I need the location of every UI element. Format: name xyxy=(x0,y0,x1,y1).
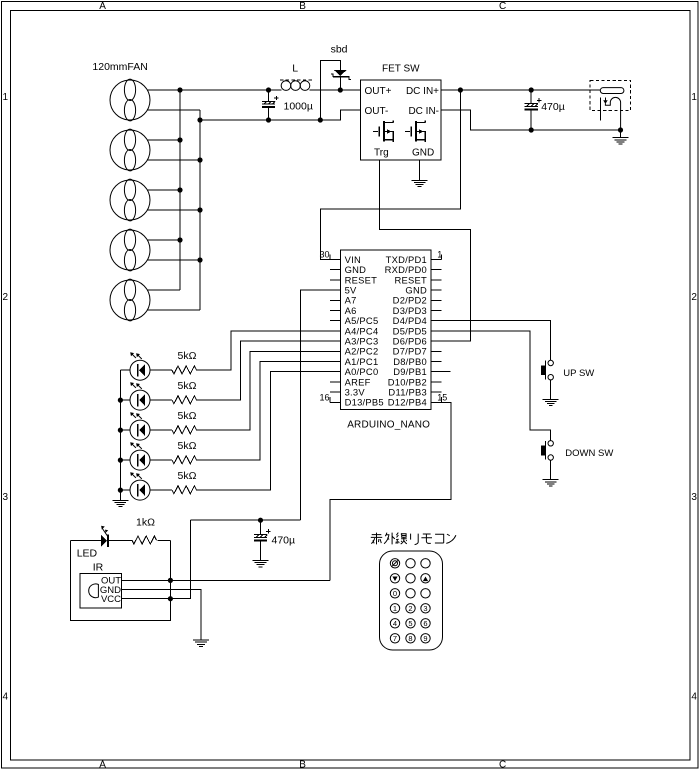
wire fan- rail xyxy=(199,110,201,310)
resistor R1 5k xyxy=(172,366,197,374)
svg-text:15: 15 xyxy=(437,392,447,402)
wire D5/PD5 to DOWN SW xyxy=(442,331,551,441)
svg-text:1000µ: 1000µ xyxy=(284,101,313,113)
svg-text:0: 0 xyxy=(393,589,397,598)
svg-text:OUT-: OUT- xyxy=(365,106,389,117)
wire LED anode lead xyxy=(150,489,172,491)
wire R to A1/PC1 xyxy=(197,362,330,461)
wire LED cathode lead xyxy=(120,369,130,371)
svg-text:LED: LED xyxy=(77,548,98,560)
wire fan- lead xyxy=(147,259,200,261)
svg-text:DC IN+: DC IN+ xyxy=(406,86,439,97)
remote power button icon xyxy=(392,560,398,566)
wire fan+ rail xyxy=(179,90,181,290)
IC U1 ARDUINO_NANO box xyxy=(341,250,431,410)
svg-text:1: 1 xyxy=(691,92,697,103)
junction DC IN+ / VIN feed xyxy=(458,87,463,92)
junction fan- rail xyxy=(197,207,202,212)
ground (C3) xyxy=(253,561,269,567)
capacitor 470u (C3) xyxy=(254,529,271,540)
svg-text:5kΩ: 5kΩ xyxy=(178,410,197,422)
wire IR OUT net xyxy=(122,579,331,581)
wire fan+ lead xyxy=(147,89,180,91)
wire fan- lead xyxy=(147,159,200,161)
wire D4/PD4 to UP SW xyxy=(442,321,551,361)
svg-text:sbd: sbd xyxy=(331,43,348,55)
svg-text:9: 9 xyxy=(423,634,427,643)
wire D9/PB1 stub xyxy=(442,371,451,373)
wire fan+ lead xyxy=(147,189,180,191)
wire fan+ lead xyxy=(147,239,180,241)
junction OUT+ / C 1000u xyxy=(266,87,271,92)
wire D12/PB4 to IR OUT xyxy=(330,402,451,580)
remote digit buttons xyxy=(393,589,428,643)
LED D6 (IR emitter) xyxy=(101,526,109,547)
wire C1000u bottom lead xyxy=(268,107,270,120)
junction LED cathode rail xyxy=(118,488,123,493)
svg-text:5kΩ: 5kΩ xyxy=(178,470,197,482)
ground (DC jack) xyxy=(613,138,629,144)
wire DC IN+ to VIN xyxy=(321,90,461,260)
pin number ticks xyxy=(330,254,442,402)
junction OUT- / C 1000u xyxy=(266,117,271,122)
junction fan- rail xyxy=(197,117,202,122)
diode sbd (schottky) xyxy=(331,70,351,80)
wire Trg to D6/PD6 xyxy=(380,160,471,341)
wire 5V rail bottom xyxy=(191,519,301,521)
wire DOWN SW to ground xyxy=(550,460,552,479)
ground (DOWN SW) xyxy=(543,480,559,486)
junction OUT- / sbd xyxy=(318,117,323,122)
svg-text:3: 3 xyxy=(3,492,9,503)
junction fan+ rail xyxy=(177,187,182,192)
junction LED cathode rail xyxy=(118,428,123,433)
junction fan+ rail xyxy=(177,237,182,242)
capacitor 470u (C2) xyxy=(525,98,542,109)
ground (IR GND) xyxy=(193,640,209,646)
wire LED anode lead xyxy=(150,459,172,461)
fan M4 xyxy=(110,229,150,271)
wire LED cathode lead xyxy=(120,489,130,491)
wire LED cathode lead xyxy=(120,399,130,401)
IR sensor dome xyxy=(89,584,99,598)
fan M2 xyxy=(110,129,150,171)
wire UP SW to ground xyxy=(550,380,552,399)
svg-text:1: 1 xyxy=(3,92,9,103)
junction jack sleeve / DC IN- xyxy=(618,127,623,132)
svg-text:5kΩ: 5kΩ xyxy=(178,380,197,392)
wire C1000u top lead xyxy=(268,90,270,101)
svg-text:2: 2 xyxy=(691,292,697,303)
wire C470u-2 bottom lead xyxy=(260,541,262,561)
junction DC IN- / C 470u xyxy=(529,127,534,132)
wire LED cathode lead xyxy=(120,459,130,461)
wire R to A4/PC4 xyxy=(197,331,330,370)
LED D1 xyxy=(130,352,150,380)
wire R to A3/PC3 xyxy=(197,341,330,400)
fan M3 xyxy=(110,179,150,221)
svg-text:2: 2 xyxy=(408,604,412,613)
svg-text:UP SW: UP SW xyxy=(563,368,594,379)
wire 5V net xyxy=(301,290,331,520)
svg-text:3: 3 xyxy=(691,492,697,503)
junction IR OUT / module box edge xyxy=(168,578,173,583)
wire fan- lead xyxy=(147,309,200,311)
svg-text:4: 4 xyxy=(3,692,9,703)
junction DC IN+ / C 470u xyxy=(529,87,534,92)
LED D2 xyxy=(130,382,150,410)
wire IR GND net xyxy=(122,590,202,641)
junction 5V rail / C 470u xyxy=(258,518,263,523)
svg-text:GND: GND xyxy=(412,148,434,159)
svg-text:D12/PB4: D12/PB4 xyxy=(388,397,427,408)
svg-text:DC IN-: DC IN- xyxy=(408,106,439,117)
remote down arrow button xyxy=(392,577,397,582)
wire sbd cathode lead xyxy=(339,77,341,90)
wire LED cathode lead xyxy=(120,429,130,431)
wire fan+ lead xyxy=(147,289,180,291)
junction OUT+ / sbd xyxy=(338,87,343,92)
switch UP SW (SW1) xyxy=(541,360,553,380)
junction LED cathode rail xyxy=(118,458,123,463)
svg-text:6: 6 xyxy=(423,619,427,628)
wire C470u top lead xyxy=(530,90,532,104)
ground (LED rail) xyxy=(112,500,128,506)
wire sbd branch xyxy=(320,60,340,120)
wire OUT- net xyxy=(200,110,361,120)
junction IR VCC / module box edge xyxy=(168,596,173,601)
junction fan+ rail xyxy=(177,137,182,142)
svg-text:B: B xyxy=(299,760,306,770)
svg-text:2: 2 xyxy=(3,292,9,303)
wire C470u bottom lead xyxy=(530,110,532,131)
svg-text:B: B xyxy=(299,1,306,12)
wire LED anode lead xyxy=(150,399,172,401)
junction LED cathode rail xyxy=(118,398,123,403)
junction fan- rail xyxy=(197,257,202,262)
svg-text:5kΩ: 5kΩ xyxy=(178,350,197,362)
junction fan- rail xyxy=(197,157,202,162)
wire jack ground lead xyxy=(620,130,622,138)
svg-text:4: 4 xyxy=(691,692,697,703)
arduino right pin stubs xyxy=(431,260,442,403)
wire OUT+ net (L to FET SW) xyxy=(310,89,361,91)
transistor Q1 (FET inside FET SW) xyxy=(373,121,393,143)
fan M5 xyxy=(110,279,150,321)
svg-text:Trg: Trg xyxy=(374,148,389,159)
resistor R2 5k xyxy=(172,396,197,404)
resistor R5 5k xyxy=(172,486,197,494)
svg-text:5kΩ: 5kΩ xyxy=(178,440,197,452)
arduino left pin stubs xyxy=(330,260,341,403)
wire DC IN- net xyxy=(441,110,621,130)
switch DOWN SW (SW2) xyxy=(541,441,553,461)
label 赤外線リモコン (infrared remote) hand-drawn glyphs xyxy=(371,533,382,545)
svg-text:7: 7 xyxy=(393,634,397,643)
svg-text:FET SW: FET SW xyxy=(382,64,420,75)
svg-text:ARDUINO_NANO: ARDUINO_NANO xyxy=(347,420,430,431)
svg-text:VCC: VCC xyxy=(101,594,121,605)
wire fan+ lead xyxy=(147,139,180,141)
svg-text:1: 1 xyxy=(393,604,397,613)
FET SW module box (U2) xyxy=(361,80,442,160)
wire R to A2/PC2 xyxy=(197,351,330,430)
remote up arrow button xyxy=(423,577,428,582)
svg-text:L: L xyxy=(292,62,298,74)
wire DC IN+ net xyxy=(441,89,600,91)
ground (FET SW GND) xyxy=(412,180,428,186)
resistor R6 1k xyxy=(132,536,157,544)
wire R to A0/PC0 xyxy=(197,372,330,490)
svg-text:1kΩ: 1kΩ xyxy=(136,517,155,529)
wire LED cathode rail xyxy=(119,370,121,500)
svg-text:3: 3 xyxy=(423,604,427,613)
resistor R4 5k xyxy=(172,456,197,464)
connector DC jack (J1) xyxy=(590,80,631,130)
wire fan- lead xyxy=(147,209,200,211)
svg-text:C: C xyxy=(499,1,506,12)
svg-text:5: 5 xyxy=(408,619,412,628)
svg-text:D13/PB5: D13/PB5 xyxy=(345,397,384,408)
LED D4 xyxy=(130,442,150,470)
capacitor 1000u (C1) xyxy=(262,96,279,107)
wire LED anode lead xyxy=(150,429,172,431)
svg-text:16: 16 xyxy=(319,392,329,402)
module box LED (IR transmitter/receiver unit) xyxy=(71,541,171,621)
svg-text:120mmFAN: 120mmFAN xyxy=(92,61,147,73)
svg-text:8: 8 xyxy=(408,634,412,643)
resistor R3 5k xyxy=(172,426,197,434)
wire C470u-2 top lead xyxy=(260,520,262,535)
wire OUT+ net (fan supply) xyxy=(147,89,281,91)
wire LED anode lead xyxy=(150,369,172,371)
wire FET SW GND pin xyxy=(419,160,421,180)
svg-text:470µ: 470µ xyxy=(272,535,296,547)
inductor L xyxy=(276,80,316,91)
svg-text:OUT+: OUT+ xyxy=(365,86,392,97)
junction fan+ rail / supply xyxy=(177,87,182,92)
wire IR VCC to 5V rail xyxy=(122,520,191,599)
ground (UP SW) xyxy=(543,399,559,405)
transistor Q2 (FET inside FET SW) xyxy=(405,121,425,143)
svg-text:A: A xyxy=(99,760,106,770)
LED D5 xyxy=(130,472,150,500)
remote control body xyxy=(380,551,443,650)
svg-text:C: C xyxy=(499,760,506,770)
remote buttons grid xyxy=(390,559,430,643)
fan M1 (120mmFAN) xyxy=(110,79,150,121)
svg-text:A: A xyxy=(99,1,106,12)
svg-text:4: 4 xyxy=(393,619,397,628)
svg-text:470µ: 470µ xyxy=(541,101,565,113)
svg-text:IR: IR xyxy=(93,561,104,573)
IC U3 IR receiver box xyxy=(80,574,122,609)
wire fan- lead xyxy=(147,109,200,111)
svg-text:DOWN SW: DOWN SW xyxy=(565,448,613,459)
LED D3 xyxy=(130,412,150,440)
